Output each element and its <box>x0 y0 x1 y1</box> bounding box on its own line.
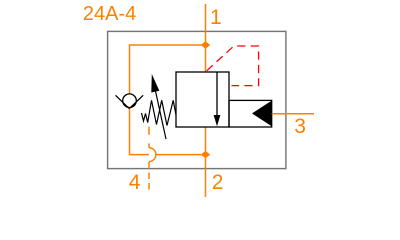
wire port 2 vertical <box>205 155 207 197</box>
wire drain dashed lower to port 4 <box>148 162 150 193</box>
spring <box>142 100 177 125</box>
wire bottom horizontal right part <box>156 154 206 156</box>
svg-text:1: 1 <box>210 6 222 29</box>
wire port 3 horizontal <box>272 113 314 115</box>
pilot line dashed red <box>207 46 259 86</box>
valve body V1 <box>176 72 229 127</box>
node junction bottom <box>201 151 210 158</box>
wire top horizontal to left and down to check valve <box>130 45 206 94</box>
flow path arrow head <box>214 115 221 126</box>
svg-text:24A-4: 24A-4 <box>83 3 136 25</box>
check valve CV1 seat <box>116 95 144 108</box>
adjustment arrow shaft <box>155 88 166 139</box>
pilot actuator triangle <box>252 101 272 127</box>
wire valve bottom to junction <box>205 127 207 155</box>
wire port 1 vertical <box>205 4 207 45</box>
adjustment arrow head <box>151 74 159 93</box>
wire junction to valve top <box>205 45 207 72</box>
enclosure border <box>108 31 286 168</box>
svg-text:4: 4 <box>129 171 141 194</box>
pilot actuator box <box>229 100 272 127</box>
check valve CV1 circle <box>123 94 137 108</box>
wire below check valve and bottom horizontal left part <box>130 109 150 155</box>
svg-text:2: 2 <box>212 171 224 194</box>
wire hop over crossing <box>149 148 156 162</box>
flow path arrow shaft <box>216 72 218 116</box>
node junction top <box>201 41 210 48</box>
wire drain dashed upper <box>148 127 150 148</box>
svg-text:3: 3 <box>294 115 306 138</box>
